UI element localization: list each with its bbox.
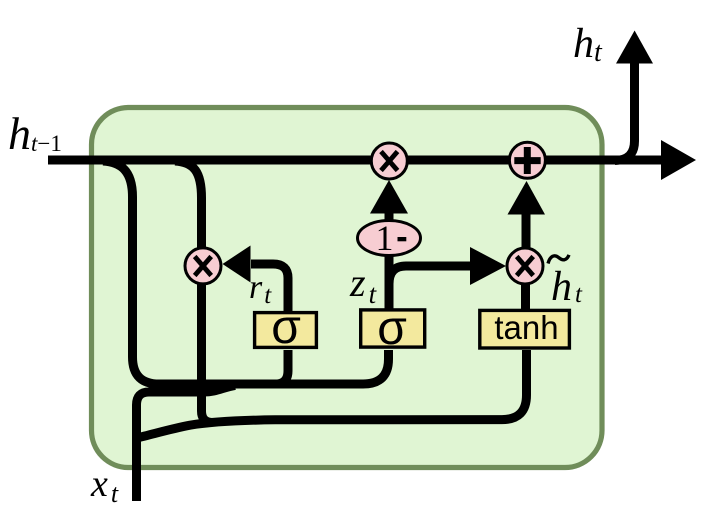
label: z_t [349,260,378,309]
label: h_t output [573,21,603,68]
op: 1- ellipse [358,218,421,258]
wire: z vertical from sigma z up to 1- [385,254,394,311]
wire: sigma r up and left to r-multiply (shaft) [251,264,288,311]
arrowhead: z into multiply [470,247,506,285]
wire: branch v1 (h to gates bus) [103,161,389,384]
gate box: sigma z [361,302,425,355]
arrowhead: 1- to multiply [370,180,408,214]
GRU cell body [92,108,603,468]
wire: r-multiply result down to bus B [202,282,212,422]
wire: x_t input vertical [137,385,236,501]
svg-text:σ: σ [377,302,407,355]
gate box: tanh [480,309,570,348]
arrowhead: main line output right [661,140,696,180]
arrowhead: r_t into r-multiply [223,246,251,283]
wire: x_t branch into bus B [137,350,527,438]
svg-text:xt: xt [90,463,119,508]
op: r-multiply [185,248,221,284]
svg-text:ht−1: ht−1 [8,108,62,159]
svg-text:σ: σ [271,301,301,354]
svg-text:ht: ht [573,21,603,68]
wire: 1- up to multiply on main line (shaft) [385,211,394,222]
label: r_t [249,269,272,309]
wire: h_t output branch up [615,60,635,161]
wire: main h line [48,156,662,165]
label: x_t input [90,463,119,508]
label: h-tilde t [548,255,583,310]
op: plus on main line [509,142,545,178]
svg-text:tanh: tanh [494,309,558,346]
wire: z branch right toward h-tilde multiply [389,266,472,284]
op: multiply on main line [371,143,407,179]
arrowhead: into plus [508,181,546,215]
arrowhead: h_t up [616,31,653,64]
wire: h-tilde multiply up to plus (shaft) [522,212,531,248]
op: h-tilde multiply [507,248,543,284]
svg-text:1: 1 [376,218,394,258]
wire: tanh top to h-tilde multiply [521,283,530,311]
wire: branch up to sigma r [275,350,288,384]
label: h_{t-1} [8,108,62,159]
gate box: sigma r [255,301,317,354]
wire: branch v2 (h into r-multiply) [175,161,202,250]
